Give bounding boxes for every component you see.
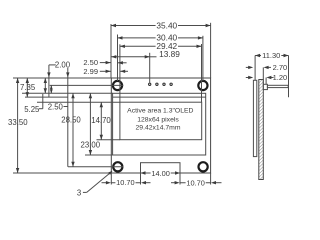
svg-text:23.00: 23.00 [81, 141, 101, 150]
ext: side header up [265, 78, 267, 85]
PCB outline (front view) [111, 78, 210, 173]
side view: pin header block [263, 84, 267, 89]
svg-text:7.35: 7.35 [20, 83, 36, 92]
side view: pin [267, 85, 288, 87]
active area outline [120, 102, 202, 140]
svg-text:10.70: 10.70 [186, 178, 205, 187]
mounting hole bottom-left [113, 162, 122, 171]
dimension 13.89 (edge to first pin) [111, 56, 149, 58]
ext: PCB right edge up [210, 23, 212, 78]
dimension 30.40 (hole spacing) [118, 37, 203, 39]
ext: side PCB back up [262, 67, 264, 84]
svg-text:14.00: 14.00 [151, 169, 170, 178]
svg-text:Active area 1.3"OLED: Active area 1.3"OLED [127, 108, 193, 115]
dimension 35.40 (overall width) [111, 25, 211, 27]
dimension 23.00 [89, 93, 91, 155]
svg-text:29.42x14.7mm: 29.42x14.7mm [136, 124, 181, 131]
ext: active area bottom to left [97, 139, 120, 141]
ext: top hole center line [50, 84, 124, 86]
ext: active area right up [201, 44, 203, 102]
side view: glass bar [253, 80, 256, 156]
svg-text:33.50: 33.50 [8, 118, 28, 127]
dimension 10.70 right [180, 182, 211, 184]
dimension 33.50 (overall height) [17, 78, 19, 173]
svg-text:28.50: 28.50 [61, 116, 81, 125]
dimension 1.20 [246, 77, 249, 79]
dimension 2.70 [246, 66, 249, 68]
dimension 28.50 [72, 93, 74, 167]
svg-text:10.70: 10.70 [116, 178, 135, 187]
ext: PCB top edge to left [13, 77, 111, 79]
dimension 14.70 (active area height) [100, 102, 102, 140]
dimension 10.70 left [111, 182, 140, 184]
dimension 5.25 [44, 78, 46, 93]
svg-text:2.50: 2.50 [48, 103, 64, 112]
svg-text:11.30: 11.30 [262, 51, 280, 60]
dimension 2.50 (glass inset) [50, 85, 52, 93]
ext: connector left down [140, 173, 142, 185]
ext: PCB left edge down [110, 173, 112, 185]
svg-text:2.70: 2.70 [273, 63, 288, 72]
pin holes (4x) [149, 83, 151, 85]
svg-text:128x64 pixels: 128x64 pixels [137, 116, 179, 123]
svg-text:2.50: 2.50 [83, 58, 98, 67]
ext: PCB right edge down [210, 173, 212, 185]
dimension 14.00 (connector width) [141, 172, 181, 174]
svg-text:5.25: 5.25 [24, 105, 40, 114]
ext: active area top to left [37, 101, 120, 103]
svg-text:2.00: 2.00 [55, 61, 71, 70]
svg-text:35.40: 35.40 [156, 21, 177, 31]
ext line at inner glass level [25, 96, 68, 98]
mounting hole top-right [198, 81, 207, 90]
ext: glass bottom to left [85, 154, 113, 156]
bottom connector outline [141, 163, 181, 173]
svg-text:13.89: 13.89 [159, 49, 180, 59]
svg-text:14.70: 14.70 [91, 116, 111, 125]
side view: PCB bar (hatched) [259, 80, 264, 180]
svg-text:2.99: 2.99 [83, 67, 98, 76]
dimension 11.30 (overall depth) [255, 55, 288, 57]
ext: top-left hole center up [117, 35, 119, 82]
display glass outline [113, 93, 206, 155]
dimension 7.35 [26, 78, 28, 97]
ext: first pin up [149, 53, 151, 83]
ext: glass top to left [22, 92, 113, 94]
ext: top-right hole center up [202, 36, 204, 81]
ext: PCB left edge up [110, 24, 112, 78]
mounting hole bottom-right [199, 162, 208, 171]
ext: PCB bottom edge to left [13, 172, 111, 174]
ext: side glass front up [254, 56, 256, 81]
svg-text:3: 3 [77, 188, 81, 197]
mounting hole top-left [113, 81, 122, 90]
ext: bottom hole center line [68, 166, 124, 168]
ext: active area left up [119, 44, 121, 102]
ext: side pin end [288, 56, 290, 98]
ext: connector right down [179, 173, 181, 185]
inner glass edge line [113, 96, 206, 98]
svg-text:1.20: 1.20 [273, 73, 288, 82]
dimension 29.42 (active area width) [120, 45, 202, 47]
